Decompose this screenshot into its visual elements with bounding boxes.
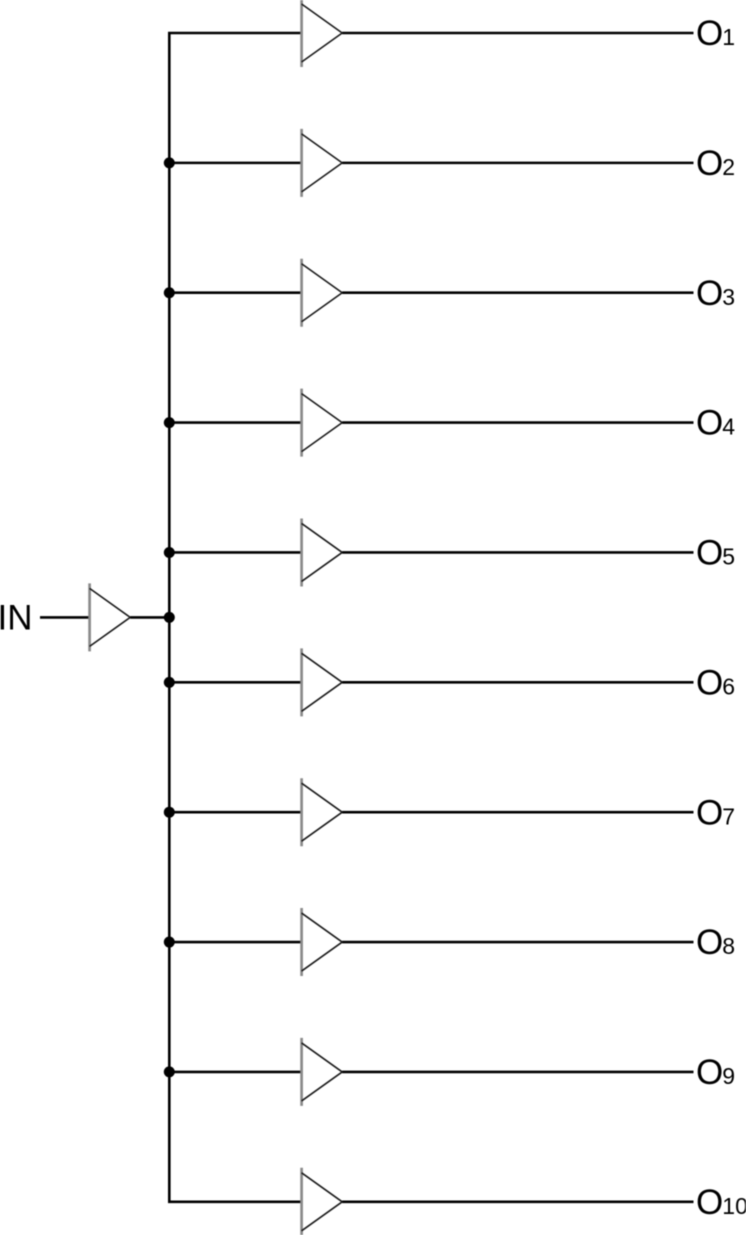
buffer U3 [302, 259, 343, 327]
junction dot at input node on bus [164, 612, 175, 623]
buffer U5 [302, 518, 343, 586]
wire U7 output to O7 [342, 811, 693, 814]
buffer U4 [302, 389, 343, 457]
wire U6 output to O6 [342, 681, 693, 684]
junction dot node row 5 [164, 547, 175, 558]
bus wire: vertical distribution net with corners to row 1 and row 10 [169, 33, 301, 1202]
buffer U9 [302, 1038, 343, 1106]
buffer U1 [302, 0, 343, 67]
wire bus to buffer U7 [169, 811, 301, 814]
junction dot node row 4 [164, 417, 175, 428]
wire bus to buffer U8 [169, 941, 301, 944]
svg-text:IN: IN [0, 598, 33, 637]
wire U0 output to bus node [130, 616, 169, 619]
wire bus to buffer U4 [169, 421, 301, 424]
wire U10 output to O10 [342, 1200, 693, 1203]
junction dot node row 9 [164, 1066, 175, 1077]
wire U4 output to O4 [342, 421, 693, 424]
buffer U8 [302, 908, 343, 976]
wire IN to input buffer U0 [40, 616, 90, 619]
buffer U6 [302, 648, 343, 716]
buffer U0 (input driver) [90, 583, 131, 651]
junction dot node row 8 [164, 937, 175, 948]
wire bus to buffer U3 [169, 291, 301, 294]
junction dot node row 2 [164, 157, 175, 168]
junction dot node row 3 [164, 287, 175, 298]
buffer U7 [302, 778, 343, 846]
wire U8 output to O8 [342, 941, 693, 944]
wire bus to buffer U6 [169, 681, 301, 684]
wire bus to buffer U9 [169, 1071, 301, 1074]
junction dot node row 7 [164, 807, 175, 818]
wire U5 output to O5 [342, 551, 693, 554]
wire U9 output to O9 [342, 1071, 693, 1074]
wire U3 output to O3 [342, 291, 693, 294]
junction dot node row 6 [164, 677, 175, 688]
buffer U2 [302, 129, 343, 197]
buffer U10 [302, 1168, 343, 1235]
wire bus to buffer U5 [169, 551, 301, 554]
wire U1 output to O1 [342, 32, 693, 35]
wire U2 output to O2 [342, 162, 693, 165]
wire bus to buffer U2 [169, 162, 301, 165]
